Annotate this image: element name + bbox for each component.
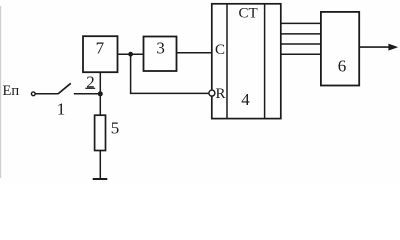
wire: counter output Q3 to block 6	[281, 43, 321, 45]
svg-text:4: 4	[241, 90, 250, 109]
wire: counter output Q4 to block 6	[281, 53, 321, 55]
ground	[93, 178, 108, 180]
junction node (branch to R input)	[128, 52, 133, 57]
scan edge artifact (left)	[0, 6, 2, 178]
svg-text:6: 6	[338, 56, 347, 75]
svg-text:R: R	[216, 86, 226, 102]
svg-text:CT: CT	[239, 6, 258, 22]
wire: output with arrow	[359, 44, 398, 51]
wire: block 3 output to counter C input	[177, 52, 212, 54]
label 2 (underlined)	[85, 72, 95, 91]
wire: resistor 5 to ground	[99, 151, 101, 180]
block 7	[83, 36, 118, 72]
wire: counter output Q1 to block 6	[281, 22, 321, 24]
wire: terminal to switch	[35, 93, 58, 95]
pin R (inverting circle on border)	[209, 86, 226, 102]
counter 4 box (CT)	[212, 4, 281, 119]
wire: junction to counter R input	[131, 54, 209, 93]
block 3	[144, 37, 177, 72]
resistor 5	[95, 115, 106, 150]
node 2 (junction dot)	[98, 91, 103, 96]
wire: counter output Q2 to block 6	[281, 33, 321, 35]
switch 1 (blade, open)	[58, 83, 71, 94]
wire: switch fixed contact to node 2	[74, 93, 101, 95]
block 6	[321, 12, 359, 86]
svg-text:Еп: Еп	[3, 83, 20, 99]
wire: block 7 bottom through node 2 to resistor 5	[99, 72, 101, 115]
svg-text:1: 1	[57, 99, 66, 118]
svg-text:7: 7	[96, 38, 105, 57]
svg-text:3: 3	[156, 39, 165, 58]
svg-text:5: 5	[111, 119, 120, 138]
svg-text:C: C	[215, 42, 225, 58]
wire: block 7 output to block 3	[118, 53, 144, 55]
terminal (input, open circle)	[31, 92, 35, 96]
